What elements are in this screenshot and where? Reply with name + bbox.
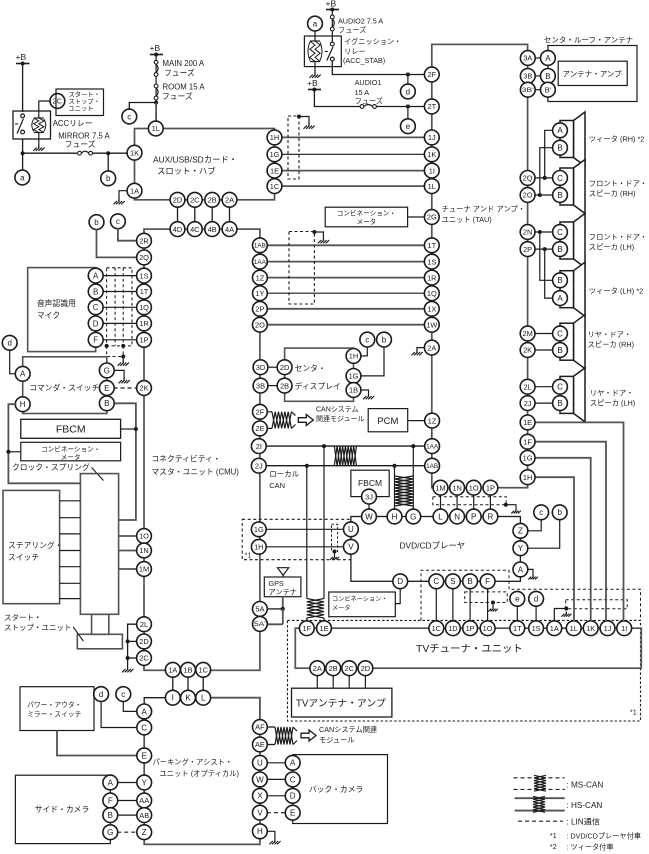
wire d to parking C xyxy=(101,701,137,727)
label back camera xyxy=(309,785,363,794)
connector 1J (TV) xyxy=(600,621,615,636)
ground parking H xyxy=(269,839,280,845)
label CAN system module (CMU) xyxy=(316,406,365,424)
svg-text:スタート・: スタート・ xyxy=(4,613,42,622)
label PCM xyxy=(377,416,398,427)
connector 2A (TV) xyxy=(310,661,325,676)
wire B to FBCM bus xyxy=(114,403,136,520)
label GPS antenna xyxy=(269,579,297,597)
wire A ground lead xyxy=(527,569,533,574)
MS-CAN twisted pair (CMU) xyxy=(272,412,291,429)
svg-text:PCM: PCM xyxy=(377,416,398,427)
svg-text:TVチューナ・ユニット: TVチューナ・ユニット xyxy=(416,643,523,655)
svg-text:1T: 1T xyxy=(427,241,436,250)
svg-text:c: c xyxy=(127,112,131,121)
connector 1C (CMU bottom) xyxy=(196,662,211,677)
pin S (DVD bottom) xyxy=(446,574,461,589)
power +B feed (AUDIO1) xyxy=(307,78,321,92)
label ACC relay xyxy=(53,119,93,128)
wire G ground lead xyxy=(114,370,125,377)
wire 2O-B xyxy=(535,193,553,197)
unit box combination meter (left) xyxy=(21,442,121,461)
junction combi meter xyxy=(6,450,10,454)
svg-text:ステアリング・: ステアリング・ xyxy=(8,540,63,550)
pin D (back camera) xyxy=(285,788,300,803)
svg-text:4C: 4C xyxy=(190,225,200,234)
label TV tuner unit xyxy=(416,643,523,655)
wire 2J riser to 1F xyxy=(306,466,308,599)
pin A (back camera) xyxy=(285,755,300,770)
connector 1O (TAU) xyxy=(466,480,481,495)
pin G (commander) xyxy=(99,363,114,378)
label rear door speaker LH xyxy=(590,389,635,408)
svg-text:1N: 1N xyxy=(139,546,148,555)
connector 5A' (CMU) xyxy=(253,617,268,632)
wire 3J-W xyxy=(368,504,370,510)
svg-text:2Q: 2Q xyxy=(139,253,149,262)
connector 1C (AUX) xyxy=(267,179,282,194)
svg-text:2A: 2A xyxy=(427,343,436,352)
wire twist to 1E xyxy=(323,618,325,621)
svg-text:AUDIO2 7.5 A: AUDIO2 7.5 A xyxy=(338,17,383,26)
wire 2N-C xyxy=(535,230,553,234)
wire mic A-1S xyxy=(102,275,137,277)
svg-text:3D: 3D xyxy=(256,363,265,372)
svg-text:1L: 1L xyxy=(428,182,436,191)
svg-text:2D: 2D xyxy=(173,196,182,205)
wire X-D xyxy=(267,795,286,797)
fuse AUDIO2 7.5A xyxy=(330,15,334,31)
svg-text:1AA: 1AA xyxy=(254,259,267,266)
label antenna amp xyxy=(563,70,623,79)
svg-text:CAN: CAN xyxy=(269,481,285,490)
svg-text:1Z: 1Z xyxy=(428,416,437,425)
svg-text:*1: *1 xyxy=(630,708,637,717)
connector 1G (CMU low) xyxy=(251,522,266,537)
svg-text:メータ: メータ xyxy=(332,604,351,612)
connector 2K (CMU) xyxy=(137,381,152,396)
svg-text:*1: *1 xyxy=(245,551,252,560)
svg-text:1E: 1E xyxy=(270,166,279,175)
svg-text:2L: 2L xyxy=(140,620,148,629)
wire L to parking AF xyxy=(210,698,260,720)
connector 1H (AUX) xyxy=(267,130,282,145)
legend LIN xyxy=(518,817,600,827)
connector 1H (TAU right) xyxy=(520,470,535,485)
svg-text:Y: Y xyxy=(518,544,524,553)
wire 2L-C xyxy=(535,386,553,388)
ground TAU 2A xyxy=(412,350,423,356)
unit box voice recognition mic xyxy=(28,268,96,352)
connector 5A (CMU) xyxy=(253,602,268,617)
arrow CAN module (CMU) xyxy=(298,415,313,426)
svg-text:1G: 1G xyxy=(523,454,533,463)
node c (to 2R) xyxy=(111,214,126,229)
wire U-A xyxy=(267,762,286,764)
wire AF to CAN twist xyxy=(267,726,275,728)
speaker tweeter LH xyxy=(560,262,585,316)
wires TV bottom to antenna amp xyxy=(317,675,365,688)
svg-text:A: A xyxy=(108,778,114,787)
svg-text:B: B xyxy=(557,245,562,254)
connector 2P (TAU) xyxy=(520,242,535,257)
svg-text:a: a xyxy=(20,173,25,182)
connector 1A (AUX) xyxy=(127,183,142,198)
svg-text:リヤ・ドア・: リヤ・ドア・ xyxy=(590,389,634,398)
svg-text:1O: 1O xyxy=(469,483,479,492)
svg-text:C: C xyxy=(557,228,563,237)
svg-text:B: B xyxy=(108,811,113,820)
label rear door speaker RH xyxy=(588,330,635,349)
wire 1G-U xyxy=(266,528,344,530)
svg-text:C: C xyxy=(557,383,563,392)
svg-text:2C: 2C xyxy=(190,196,200,205)
svg-text:1T: 1T xyxy=(140,287,149,296)
svg-text:2F: 2F xyxy=(256,408,265,417)
connector 2R (CMU) xyxy=(137,233,152,248)
svg-text:A: A xyxy=(518,565,524,574)
ground CMU 2L2D2C xyxy=(122,667,133,673)
svg-text:ユニット (オプティカル): ユニット (オプティカル) xyxy=(160,769,239,778)
connector 2I (CMU) xyxy=(251,439,266,454)
svg-text:2E: 2E xyxy=(255,424,264,433)
wire sidecam G-Z LIN xyxy=(117,831,137,833)
node a (ignition) xyxy=(308,16,323,31)
svg-text:V: V xyxy=(348,543,354,552)
legend *1 xyxy=(550,831,641,841)
svg-text:1P: 1P xyxy=(466,624,475,633)
connector 1S (CMU) xyxy=(137,268,152,283)
svg-text:1A: 1A xyxy=(168,666,177,675)
unit box GPS antenna xyxy=(264,577,301,597)
ground mic shield xyxy=(118,360,129,366)
GPS antenna symbol xyxy=(278,568,289,577)
svg-text:A: A xyxy=(20,370,26,379)
wire LNPR drain xyxy=(506,505,516,509)
pin AA (parking) xyxy=(137,793,152,808)
label side camera xyxy=(35,805,90,814)
svg-text:AB: AB xyxy=(139,811,149,820)
svg-text:2B: 2B xyxy=(280,381,289,390)
svg-text:S: S xyxy=(450,577,455,586)
wire 2P-1X xyxy=(267,308,425,310)
svg-text:+B: +B xyxy=(307,78,318,88)
svg-text:N: N xyxy=(454,512,460,521)
wire A tap (tw RH) xyxy=(545,130,553,178)
svg-text:CANシステム: CANシステム xyxy=(316,406,359,414)
connector 2F (CMU) xyxy=(253,404,268,419)
pin H (parking) xyxy=(253,824,268,839)
svg-text:ユニット: ユニット xyxy=(69,106,94,113)
svg-text:1N: 1N xyxy=(452,483,461,492)
connector 1E (TV) xyxy=(317,621,332,636)
wire 1G to TV 1K xyxy=(535,458,591,621)
svg-text:(ACC_STAB): (ACC_STAB) xyxy=(343,56,385,65)
svg-text:1K: 1K xyxy=(427,150,436,159)
svg-text:1B: 1B xyxy=(349,386,358,395)
pin G (DVD) xyxy=(406,509,421,524)
svg-text:1C: 1C xyxy=(432,624,442,633)
speaker front door RH xyxy=(560,160,585,214)
connector 2A (TAU) xyxy=(424,340,439,355)
pin D (DVD bottom) xyxy=(393,574,408,589)
svg-text:2G: 2G xyxy=(427,213,437,222)
svg-text:1D: 1D xyxy=(448,624,457,633)
unit box PCM xyxy=(368,409,408,432)
svg-text:D: D xyxy=(93,319,99,328)
node d (commander) xyxy=(2,335,17,350)
svg-text:A: A xyxy=(557,294,563,303)
pin C (parking) xyxy=(137,720,152,735)
pin 2D (center display) xyxy=(277,360,292,375)
svg-text:TVアンテナ・アンプ: TVアンテナ・アンプ xyxy=(296,698,386,710)
connector 1D (TV) xyxy=(446,621,461,636)
fuse MIRROR xyxy=(78,151,93,155)
node c (DVD) xyxy=(534,505,549,520)
svg-text:B: B xyxy=(557,144,562,153)
wires steering to clock spring xyxy=(60,501,81,599)
svg-text:2A: 2A xyxy=(225,196,234,205)
svg-text:3B: 3B xyxy=(523,72,532,81)
svg-text:B: B xyxy=(104,399,109,408)
svg-text:L: L xyxy=(201,694,206,703)
svg-text:2J: 2J xyxy=(255,461,263,470)
connector 2J (TAU) xyxy=(520,396,535,411)
connector 1B (CMU bottom) xyxy=(181,662,196,677)
connector 1L (AUX) xyxy=(148,121,163,136)
svg-text:2O: 2O xyxy=(255,320,265,329)
wire sidecam F-AA xyxy=(117,800,137,802)
label DVD/CD player xyxy=(400,541,466,551)
svg-text:2K: 2K xyxy=(523,346,532,355)
connector 4D (CMU) xyxy=(170,222,185,237)
start-stop unit stem xyxy=(92,614,109,634)
speaker tweeter RH xyxy=(560,112,585,166)
svg-text:マスタ・ユニット (CMU): マスタ・ユニット (CMU) xyxy=(151,468,239,477)
svg-text:ツィータ (RH) *2: ツィータ (RH) *2 xyxy=(589,135,645,144)
svg-text:2N: 2N xyxy=(523,228,532,237)
svg-text:1P: 1P xyxy=(486,483,495,492)
svg-text:U: U xyxy=(257,759,263,768)
connector 1L (TV) xyxy=(566,621,581,636)
pin Z (DVD) xyxy=(513,523,528,538)
svg-text:K: K xyxy=(185,694,191,703)
node d (2F) xyxy=(401,84,416,99)
pin A (DVD) xyxy=(513,562,528,577)
svg-text:2I: 2I xyxy=(256,442,262,451)
connector 1Q (CMU) xyxy=(137,300,152,315)
label *1 (DVD wires) xyxy=(245,551,252,560)
pin A (mic) xyxy=(88,268,103,283)
pin B (mic) xyxy=(88,284,103,299)
connector 2C (CMU) xyxy=(137,651,152,666)
speaker rear door RH xyxy=(560,315,585,369)
wire A tap (tw LH) xyxy=(545,249,553,298)
svg-text:フロント・ドア・: フロント・ドア・ xyxy=(589,179,647,188)
wire d-1S xyxy=(535,606,537,621)
svg-text:: ツィータ付車: : ツィータ付車 xyxy=(566,843,613,852)
label ignition relay xyxy=(343,37,401,65)
node c (fuse chain) xyxy=(122,109,137,124)
svg-text:2T: 2T xyxy=(427,102,436,111)
svg-text:3A: 3A xyxy=(523,54,532,63)
svg-text:1H: 1H xyxy=(349,352,358,361)
wire 2A ground lead xyxy=(417,348,425,350)
svg-text:a: a xyxy=(313,20,318,29)
svg-text:1Q: 1Q xyxy=(427,289,437,298)
svg-text:モジュール: モジュール xyxy=(319,736,354,745)
connector 1K (TAU) xyxy=(424,147,439,162)
unit box center roof antenna xyxy=(548,46,637,102)
connector 2B (TV) xyxy=(326,661,341,676)
wire mic B-1T xyxy=(102,291,137,293)
svg-text:b: b xyxy=(557,508,562,517)
svg-text:1Y: 1Y xyxy=(255,289,264,298)
wire 1H-1J xyxy=(281,136,425,138)
ACC relay box xyxy=(13,111,51,139)
HS-CAN twisted pair (parking) xyxy=(275,727,293,745)
svg-text:ROOM 15 A: ROOM 15 A xyxy=(163,83,206,92)
connector 2L (CMU) xyxy=(137,617,152,632)
option band LNPR xyxy=(433,497,508,507)
svg-text:ローカル: ローカル xyxy=(269,470,299,479)
svg-text:W: W xyxy=(365,512,373,521)
connector 1S (TV) xyxy=(529,621,544,636)
connector 2C (AUX) xyxy=(187,192,202,207)
svg-text:1O: 1O xyxy=(139,532,149,541)
svg-text:フューズ: フューズ xyxy=(162,91,193,101)
wire 1AA-1S xyxy=(267,261,425,263)
svg-text:コンビネーション・: コンビネーション・ xyxy=(332,595,388,603)
svg-text:C: C xyxy=(557,174,563,183)
connector 2C (TV) xyxy=(342,661,357,676)
svg-text:E: E xyxy=(142,751,147,760)
wire c-1H xyxy=(361,347,368,356)
svg-text:A: A xyxy=(545,54,551,63)
unit box side camera xyxy=(15,775,110,843)
node e (2T) xyxy=(401,119,416,134)
connector 2J (CMU) xyxy=(251,458,266,473)
connector 1K (TV) xyxy=(583,621,598,636)
wire 2J-1AB xyxy=(266,464,425,468)
node d (power mirror) xyxy=(94,687,109,702)
svg-text:1W: 1W xyxy=(426,320,437,329)
connector 1A (TV) xyxy=(547,621,562,636)
connector 1J (TAU) xyxy=(424,130,439,145)
label FBCM xyxy=(56,424,86,436)
svg-text:1F: 1F xyxy=(523,437,532,446)
svg-text:e: e xyxy=(515,595,520,604)
svg-text:ディスプレイ: ディスプレイ xyxy=(295,381,341,391)
svg-text:1Q: 1Q xyxy=(139,303,149,312)
svg-text:MAIN 200 A: MAIN 200 A xyxy=(163,59,205,68)
pin B (DVD bottom) xyxy=(463,574,478,589)
pin A (commander) xyxy=(15,366,30,381)
connector 1H (CMU low) xyxy=(251,539,266,554)
svg-text:スピーカ (LH): スピーカ (LH) xyxy=(589,243,634,252)
wire W-C xyxy=(267,778,286,780)
wire contact to 2F xyxy=(332,61,425,77)
svg-text:1J: 1J xyxy=(428,133,436,142)
option box TV tuner *1 xyxy=(288,620,641,721)
svg-text:リヤ・ドア・: リヤ・ドア・ xyxy=(588,330,632,339)
label AUDIO1 fuse xyxy=(355,78,383,106)
pin U (DVD) xyxy=(344,522,359,537)
svg-text:Z: Z xyxy=(142,828,147,837)
wire 2P-B xyxy=(535,247,553,251)
connector 1A (CMU bottom) xyxy=(165,662,180,677)
svg-text:ツィータ (LH) *2: ツィータ (LH) *2 xyxy=(589,287,643,296)
connector 2C (start-stop unit) xyxy=(50,94,65,109)
unit box clock spring xyxy=(80,474,118,615)
svg-text:1L: 1L xyxy=(570,624,578,633)
svg-text:1M: 1M xyxy=(139,565,149,574)
HS-CAN twisted pair (TV) xyxy=(307,599,324,619)
svg-text:1O: 1O xyxy=(483,624,493,633)
pin 1H (center display) xyxy=(346,349,361,364)
pin B (front door RH) xyxy=(553,188,568,203)
connector 1P (CMU) xyxy=(137,332,152,347)
node a (left) xyxy=(15,170,30,185)
svg-text:コマンダ・スイッチ: コマンダ・スイッチ xyxy=(29,383,99,393)
pin C (DVD bottom) xyxy=(429,574,444,589)
pin L xyxy=(196,690,211,705)
pin B (tweeter RH) xyxy=(553,140,568,155)
node b (center display) xyxy=(377,332,392,347)
connector 3B (CMU) xyxy=(253,378,268,393)
wire d stub xyxy=(407,75,409,85)
svg-text:d: d xyxy=(406,87,410,96)
pin L (DVD) xyxy=(433,509,448,524)
svg-text:1S: 1S xyxy=(139,271,148,280)
wire 3B-2B xyxy=(268,385,278,387)
connector 1AA (CMU) xyxy=(253,254,268,269)
svg-text:1E: 1E xyxy=(523,418,532,427)
svg-text:リレー: リレー xyxy=(344,47,366,56)
pin F (DVD bottom) xyxy=(480,574,495,589)
wire 2M-C xyxy=(535,333,553,335)
power +B feed (top left) xyxy=(16,52,30,66)
pin A (antenna) xyxy=(541,51,556,66)
svg-text:B': B' xyxy=(545,85,552,94)
connector 1T (CMU) xyxy=(137,284,152,299)
connector 1F (TAU right) xyxy=(520,434,535,449)
label power outer mirror switch xyxy=(27,700,82,719)
wire 1E to TV 1I xyxy=(535,422,624,621)
unit box TV tuner unit xyxy=(295,628,641,668)
connector 1AB (TAU) xyxy=(425,458,440,473)
svg-text:1X: 1X xyxy=(427,305,436,314)
svg-text:マイク: マイク xyxy=(37,311,60,320)
wire 1H-V xyxy=(266,546,344,548)
wire B tap (tw LH) xyxy=(540,232,553,280)
wire b-2Q xyxy=(97,229,138,257)
connector 1Y (CMU) xyxy=(253,286,268,301)
svg-text:D: D xyxy=(290,792,296,801)
legend *2 xyxy=(550,842,614,852)
wire BF drain xyxy=(492,603,494,607)
wire shield drain xyxy=(299,117,309,124)
svg-text:コンビネーション・: コンビネーション・ xyxy=(337,209,396,218)
svg-text:4B: 4B xyxy=(208,225,217,234)
wire twist tails (parking) xyxy=(293,727,297,745)
svg-text:1J: 1J xyxy=(604,624,612,633)
svg-text:2P: 2P xyxy=(255,305,264,314)
svg-text:1E: 1E xyxy=(319,624,328,633)
ground AUX shield xyxy=(304,123,315,129)
label center roof antenna xyxy=(544,36,633,45)
pin E (parking) xyxy=(137,748,152,763)
